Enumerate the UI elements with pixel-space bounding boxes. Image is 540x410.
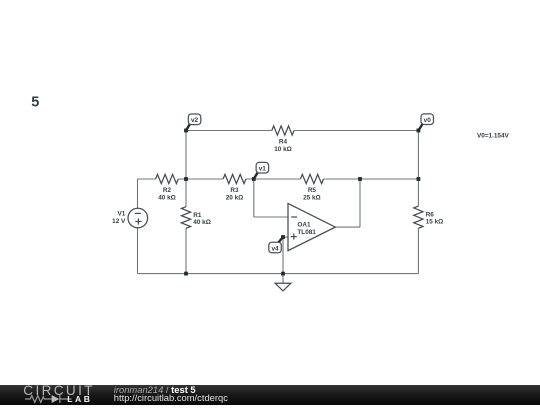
svg-text:40 kΩ: 40 kΩ [193, 219, 211, 226]
voltage source V1 [112, 208, 147, 228]
svg-text:V1: V1 [117, 211, 125, 218]
svg-text:R2: R2 [163, 187, 172, 194]
svg-text:40 kΩ: 40 kΩ [158, 194, 176, 201]
wire into op-amp non-inverting input [283, 236, 288, 238]
resistor R6 [414, 206, 443, 228]
svg-text:R4: R4 [279, 139, 288, 146]
resistor R2 [156, 174, 179, 201]
svg-text:v2: v2 [191, 117, 199, 124]
ground [275, 283, 291, 291]
node junction at (360,179) [358, 177, 362, 181]
svg-text:v1: v1 [259, 166, 267, 173]
node junction at (283,237) [281, 235, 285, 239]
wire right rail below R6 [417, 228, 419, 273]
wire op-amp output [335, 226, 360, 228]
svg-text:10 kΩ: 10 kΩ [274, 146, 292, 153]
svg-text:25 kΩ: 25 kΩ [303, 194, 321, 201]
svg-text:V0=1.154V: V0=1.154V [477, 133, 510, 140]
node label v4 [269, 237, 283, 253]
wire left rail below V1 [137, 228, 139, 274]
svg-text:v4: v4 [271, 245, 279, 252]
wire bottom rail [138, 273, 419, 275]
wire top rail left of R4 [186, 130, 272, 132]
node junction at (283,274) [281, 272, 285, 276]
wire mid rail R3 to R5 [246, 178, 301, 180]
svg-text:5: 5 [31, 95, 39, 111]
resistor R3 [223, 174, 246, 201]
wire mid rail R2 to R3 [178, 178, 223, 180]
svg-text:TL081: TL081 [297, 229, 316, 236]
svg-text:15 kΩ: 15 kΩ [426, 219, 444, 226]
svg-text:12 V: 12 V [112, 218, 126, 225]
wire left rail above V1 [137, 179, 139, 208]
svg-text:R6: R6 [426, 211, 435, 218]
node label v0 [418, 114, 433, 131]
svg-text:R5: R5 [308, 187, 317, 194]
wire mid rail V1 to R2 [138, 178, 156, 180]
svg-text:20 kΩ: 20 kΩ [226, 194, 244, 201]
wire plus branch down to bottom rail [282, 237, 284, 274]
logo CIRCUIT LAB [0, 385, 110, 405]
node junction at (254,179) [252, 177, 256, 181]
footer title line [114, 385, 228, 403]
node junction at (186,130) [184, 129, 188, 133]
wire mid rail R5 to right rail [324, 178, 419, 180]
wire into op-amp inverting input [254, 216, 288, 218]
svg-text:R3: R3 [230, 187, 239, 194]
logo resistor-diode squiggle [25, 395, 72, 403]
node junction at (186,274) [184, 272, 188, 276]
node junction at (186,179) [184, 177, 188, 181]
resistor R5 [300, 174, 323, 201]
node junction at (418,179) [417, 177, 421, 181]
resistor R4 [272, 126, 294, 153]
svg-text:OA1: OA1 [297, 222, 311, 229]
wire output up to mid rail [359, 179, 361, 227]
node junction at (418,130) [417, 129, 421, 133]
wire rail A below R1 [185, 228, 187, 273]
resistor R1 [181, 207, 210, 229]
wire v1 node down [253, 179, 255, 217]
wire right rail above R6 [417, 131, 419, 207]
svg-text:R1: R1 [193, 212, 202, 219]
wire ground stub [282, 274, 284, 284]
svg-text:v0: v0 [424, 117, 432, 124]
node label v2 [186, 114, 201, 131]
wire top rail right of R4 [294, 130, 418, 132]
wire rail A above R1 [185, 131, 187, 207]
node label v1 [254, 162, 269, 179]
op-amp OA1 TL081 [288, 203, 335, 250]
